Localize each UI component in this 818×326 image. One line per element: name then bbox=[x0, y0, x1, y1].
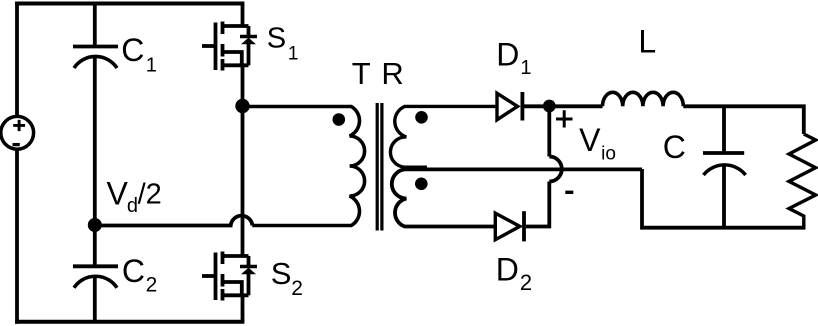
svg-text:1: 1 bbox=[288, 44, 299, 65]
voltage source minus mark bbox=[13, 143, 20, 146]
label Vd/2 bbox=[107, 175, 162, 217]
body diode lower segment bbox=[247, 274, 251, 295]
voltage source Vd bbox=[1, 116, 34, 149]
svg-text:d: d bbox=[127, 195, 138, 217]
transformer core line left bbox=[376, 103, 379, 231]
label C output bbox=[663, 129, 686, 165]
wire hop over center tap bbox=[549, 157, 561, 182]
body diode cathode bar bbox=[240, 35, 257, 39]
drain connect bbox=[223, 254, 249, 258]
wire S1 source to junction bbox=[241, 65, 245, 106]
svg-text:C: C bbox=[121, 32, 144, 68]
svg-text:1: 1 bbox=[520, 57, 531, 79]
label D2 bbox=[496, 252, 532, 296]
svg-text:S: S bbox=[271, 256, 292, 291]
label L bbox=[638, 23, 656, 59]
transformer secondary bottom polarity dot bbox=[415, 178, 428, 191]
label D1 bbox=[496, 37, 531, 79]
drain lead bbox=[241, 4, 245, 27]
svg-text:1: 1 bbox=[146, 54, 157, 76]
inductor L bbox=[603, 92, 684, 106]
body diode arrow bbox=[241, 38, 256, 45]
diode D1 bbox=[497, 92, 522, 121]
body diode cathode bar bbox=[240, 265, 257, 269]
transistor S2 bbox=[202, 252, 257, 301]
label TR bbox=[352, 56, 405, 91]
node plus output junction bbox=[543, 100, 556, 113]
svg-text:T R: T R bbox=[352, 56, 405, 91]
svg-text:2: 2 bbox=[520, 270, 532, 295]
transistor S1 bbox=[202, 4, 257, 71]
wire capacitor leg bottom bbox=[93, 276, 97, 322]
wire S2 source to bottom rail bbox=[241, 295, 245, 322]
svg-text:V: V bbox=[107, 175, 129, 211]
wire down to D2 cathode bbox=[526, 182, 549, 227]
wire D1 cathode to plus node bbox=[524, 104, 603, 108]
wire plus node down to hop bbox=[547, 106, 551, 157]
svg-text:io: io bbox=[601, 144, 616, 165]
wire switch rail middle (junction down to S2) bbox=[241, 106, 245, 257]
svg-text:L: L bbox=[638, 23, 656, 59]
body diode lower segment bbox=[247, 44, 251, 65]
transformer secondary top winding bbox=[390, 106, 495, 167]
svg-text:/2: /2 bbox=[138, 178, 162, 210]
wire middle with hop over switch rail bbox=[95, 216, 253, 226]
transformer secondary bottom winding bbox=[392, 169, 642, 226]
label S2 bbox=[271, 256, 303, 300]
wire center tap corner down and bottom output rail bbox=[642, 169, 805, 228]
gate stub bbox=[202, 44, 216, 48]
body diode arrow bbox=[241, 268, 256, 275]
svg-text:C: C bbox=[122, 253, 145, 289]
label S1 bbox=[267, 23, 299, 65]
wire left rail lower segment bbox=[15, 149, 19, 324]
wire left rail upper segment bbox=[15, 2, 19, 117]
capacitor C1 bbox=[73, 47, 118, 69]
transformer core line right bbox=[380, 103, 383, 231]
body diode upper segment bbox=[247, 256, 251, 265]
capacitor C2 bbox=[73, 266, 118, 288]
label minus output bbox=[565, 191, 573, 194]
label Vio bbox=[579, 122, 616, 165]
svg-text:C: C bbox=[663, 129, 686, 165]
svg-text:D: D bbox=[496, 252, 519, 288]
label plus output bbox=[556, 110, 573, 127]
node Vd/2 junction bbox=[88, 218, 102, 232]
channel segments bbox=[221, 252, 225, 301]
wire top output rail bbox=[683, 106, 804, 134]
svg-text:D: D bbox=[496, 37, 519, 73]
label C2 bbox=[122, 253, 157, 296]
svg-text:2: 2 bbox=[291, 277, 303, 300]
source connect mid bbox=[223, 52, 242, 65]
gate bar bbox=[214, 23, 218, 71]
transformer TR primary winding bbox=[249, 107, 365, 226]
capacitor C output bbox=[703, 153, 746, 175]
wire capacitor leg top bbox=[93, 4, 97, 47]
transformer primary polarity dot bbox=[333, 113, 346, 126]
drain connect bbox=[223, 24, 249, 28]
voltage source plus mark bbox=[13, 120, 25, 131]
gate stub bbox=[202, 274, 216, 278]
diode D2 bbox=[495, 211, 524, 241]
wire top rail bbox=[15, 2, 244, 6]
svg-text:V: V bbox=[579, 122, 601, 158]
channel segments bbox=[221, 22, 225, 71]
source connect mid bbox=[223, 282, 242, 295]
source connect bottom bbox=[223, 293, 249, 297]
source connect bottom bbox=[223, 63, 249, 67]
resistor load bbox=[789, 134, 816, 230]
capacitor C output bottom leg bbox=[722, 166, 726, 228]
svg-text:S: S bbox=[267, 23, 286, 55]
capacitor C output top leg bbox=[722, 106, 726, 151]
transformer secondary top polarity dot bbox=[415, 111, 428, 124]
gate bar bbox=[214, 253, 218, 301]
wire bottom rail bbox=[15, 320, 244, 324]
label C1 bbox=[121, 32, 157, 76]
wire capacitor leg middle bbox=[93, 57, 97, 267]
svg-text:2: 2 bbox=[146, 273, 158, 296]
node switch midpoint junction bbox=[235, 99, 249, 113]
body diode upper segment bbox=[247, 26, 251, 35]
